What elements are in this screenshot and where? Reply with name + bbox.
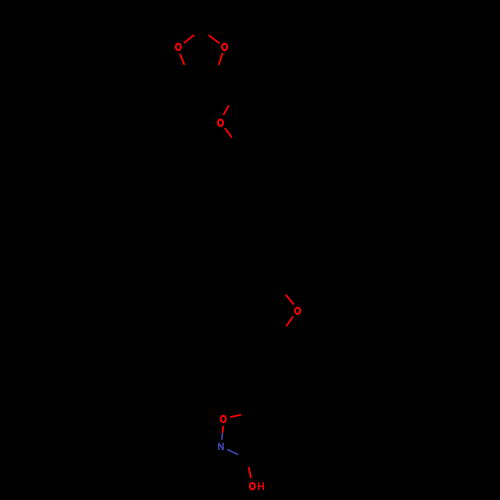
dioxolane bond C2-O3 red half	[209, 35, 220, 43]
isoxazoline bond O1'-C5' red half	[230, 415, 241, 418]
dioxolane bond O3-C5 red half	[219, 53, 223, 65]
hydroxyl label O	[250, 483, 255, 490]
dioxolane atom label O3	[222, 44, 227, 51]
ether O7 atom label	[295, 308, 300, 315]
ether O6 bond O6-CH2 red half lower	[225, 128, 232, 137]
dioxolane atom label O1	[176, 44, 181, 51]
ether O7 bond O7-CH2 red half lower	[286, 316, 293, 326]
hydroxyl label H	[259, 482, 264, 490]
ether O6 atom label	[218, 119, 223, 126]
ether O7 bond CH2-O7 red half upper	[286, 295, 294, 305]
dioxolane bond O1-C4 red half	[180, 54, 185, 65]
ether O6 bond CH2-O6 red half upper	[223, 106, 228, 115]
isoxazoline bond O1'-N2' red half	[222, 426, 225, 433]
dioxolane bond C2-O1 red half	[184, 35, 194, 43]
isoxazoline bond N2'-C3' blue half	[227, 450, 238, 455]
isoxazoline bond O1'-N2' blue half	[221, 433, 224, 440]
isoxazoline atom label O1'	[221, 416, 226, 423]
isoxazoline atom label N2'	[219, 443, 223, 450]
hydroxyl bond C3'-O red half	[249, 467, 251, 478]
